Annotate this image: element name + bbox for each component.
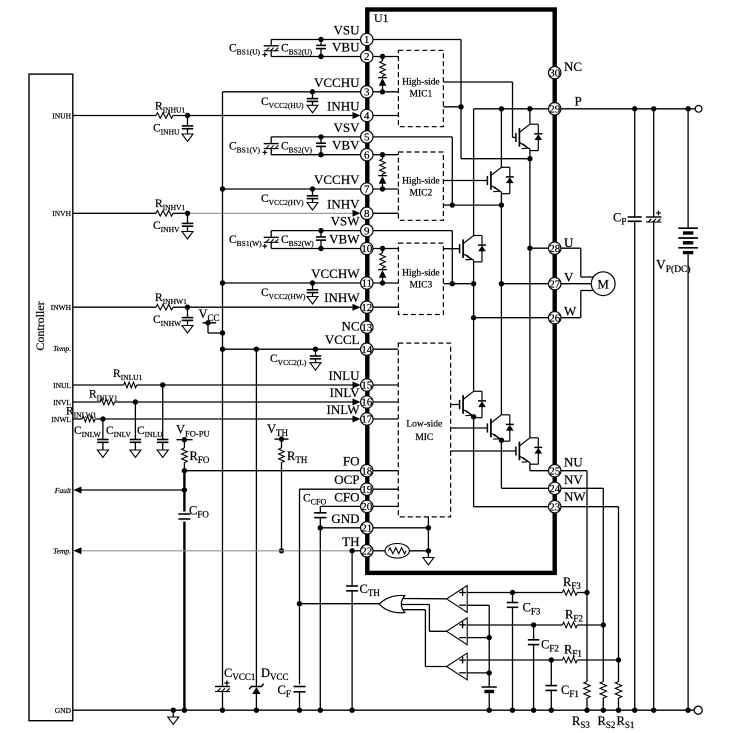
wire VCCHV right [373,188,398,190]
ground bus junction [510,708,515,713]
VCC supply terminal [203,322,217,324]
wire RF2 to NV [577,624,603,626]
svg-text:NC: NC [564,59,582,74]
wire VSU jog to U emitter [461,158,530,160]
node CBS2(V) top [318,134,323,139]
wire VBW left [271,248,360,250]
node NV-RF2 [601,622,606,627]
node U emitter [527,156,532,161]
capacitor CINHV [187,213,189,223]
ground bus junction [616,708,621,713]
node P-U collector [527,106,532,111]
wire VBU right [373,56,398,58]
node bootstrap U top [380,54,385,59]
capacitor CBS2(W) [320,231,322,237]
wire U emitter down [529,149,531,248]
pin 15 [361,379,373,391]
resistor RFO [183,440,185,448]
wire RINLW1 to pin 17 [95,418,354,420]
node bootstrap V bottom [380,186,385,191]
wire VCCHW line [223,282,361,284]
svg-text:INLU: INLU [328,368,360,383]
capacitor CF1 [546,685,558,687]
svg-text:INLW: INLW [327,402,361,417]
node CVCC2(HU) [310,89,315,94]
wire INWH from controller [73,306,156,308]
svg-text:11: 11 [362,278,373,290]
plus CBS1(U) [263,54,268,56]
node LS V emitter [499,438,504,443]
node RFO-FO [182,468,187,473]
node CF2 [531,622,536,627]
wire RINLV1 to pin 16 [115,401,354,403]
wire RF1 to NW [577,659,618,661]
svg-text:P: P [575,94,582,109]
wire VCCHW right [373,282,398,284]
svg-text:INUL: INUL [53,381,71,390]
wire pin 20 into low-side MIC [373,505,398,507]
wire thermistor to gnd node [409,550,428,552]
ground CINLU [157,450,168,458]
wire pin 15 into low-side MIC [373,384,398,386]
capacitor CVCC2(HU) [312,92,314,99]
resistor RF2 [562,622,577,628]
node NU-RF3 [584,590,589,595]
node W emitter [471,281,476,286]
ground bus junction [349,708,354,713]
node CBS2(W) top [318,228,323,233]
capacitor CBS1(U) electrolytic [264,45,279,47]
node V rail [499,281,504,286]
pin 19 [361,483,373,495]
node CTH on TH line [349,548,354,553]
node battery top [685,106,690,111]
capacitor CBS2(U) [320,40,322,46]
capacitor CBS1(V) electrolytic [264,143,279,145]
ground CVCC2(L) [310,363,321,371]
pin 24 [549,482,561,494]
wire MIC1 VS output [443,106,461,108]
pin 9 [361,224,373,236]
ground CVCC2(HU) [307,105,318,113]
svg-text:8: 8 [364,208,370,220]
svg-text:1: 1 [364,34,370,46]
svg-text:21: 21 [361,523,372,535]
wire MIC2 gate output [443,180,487,182]
resistor RINLV1 [100,399,114,405]
transistor low-side V IGBT [500,284,502,415]
resistor RINLW1 [82,416,95,422]
pin 20 [361,500,373,512]
wire CINLW [102,419,104,440]
wire U to motor [561,247,581,249]
arrow into pin 4 [353,112,361,119]
svg-text:VCCHW: VCCHW [311,266,360,281]
wire VBV left [271,154,360,156]
capacitor CINLU [157,439,169,441]
wire bootstrap left vertical [270,40,272,46]
svg-text:20: 20 [361,501,373,513]
wire CF1 [550,660,552,686]
pin 11 [361,277,373,289]
arrow into pin 17 [353,416,361,423]
wire Temp line gray [81,550,352,552]
svg-text:5: 5 [364,132,370,144]
arrow Temp into controller [73,547,81,554]
wire VCCL line [223,348,361,350]
svg-text:23: 23 [549,501,561,513]
wire LS gate V phase [451,427,488,429]
wire P rail external [561,108,695,110]
pin 3 [361,86,373,98]
wire CTH vertical [351,551,353,586]
diode bootstrap V [378,175,387,177]
svg-text:3: 3 [364,87,370,99]
pin 23 [549,501,561,513]
node NW-RF1 [616,657,621,662]
wire VCCHU line [223,91,361,93]
pin 13 [361,321,373,333]
pin 16 [361,396,373,408]
resistor RINHV1 [156,211,173,217]
arrow Fault into controller [73,487,81,494]
node CBS2(V) bottom [318,152,323,157]
svg-text:4: 4 [364,110,370,122]
svg-text:VBV: VBV [332,138,360,153]
wire LS gate W phase [451,404,460,406]
wire DVCC vertical [255,349,257,686]
svg-text:INWH: INWH [51,303,72,312]
wire OR input comp U [401,598,447,600]
battery VP(DC) [678,227,698,229]
svg-text:NV: NV [564,472,583,487]
pin 27 [549,278,561,290]
svg-text:High-side: High-side [402,269,439,279]
wire VSW right of pin 9 [373,230,452,232]
resistor RS3 [584,682,590,699]
transistor low-side U IGBT [529,248,531,437]
node CF3 [510,590,515,595]
wire RINHU1 to pin 4 [173,115,354,117]
wire INHV into MIC2 [373,212,398,214]
wire CINLV [134,402,136,440]
resistor RF3 [562,590,577,596]
wire OCP down to CF [299,604,301,685]
svg-text:MIC3: MIC3 [410,281,433,291]
node CBS2(U) top [318,37,323,42]
svg-text:25: 25 [549,465,561,477]
wire V rail to pin 27 [501,283,548,285]
svg-text:MIC: MIC [415,433,433,443]
pin 7 [361,183,373,195]
svg-text:OCP: OCP [334,472,359,487]
pin 26 [549,312,561,324]
wire Cel vertical [653,109,655,217]
node CBS2(W) bottom [318,246,323,251]
arrow into pin 8 [353,210,361,217]
wire comp W + input [467,659,562,661]
wire bootstrap left vertical [270,137,272,144]
wire RINLU1 to pin 15 [137,384,354,386]
wire VBU left [271,56,360,58]
node bootstrap V top [380,152,385,157]
capacitor CVCC2(HW) [312,283,314,290]
ground bus junction [297,708,302,713]
wire INUL from controller [73,384,124,386]
ground bus junction [171,708,176,713]
wire RINHV1 to pin 8 [173,212,188,214]
capacitor CCFO [314,512,326,514]
wire INUH from controller [73,115,156,117]
wire OR input comp W [401,609,425,611]
node Cel top [651,106,656,111]
capacitor CP [628,216,642,218]
plus CVCC1 [224,682,229,684]
wire battery bottom [687,254,689,710]
wire VSV jog to V emitter [452,204,501,206]
svg-text:GND: GND [331,511,359,526]
ground CINHW [182,326,193,334]
wire OR input comp V [401,604,429,606]
wire W emitter down [473,260,475,391]
svg-text:INUH: INUH [52,111,71,120]
capacitor CINLV [130,439,142,441]
node VSV-MIC2 [450,202,455,207]
wire NU external [561,470,587,472]
wire P rail inside [474,108,549,110]
svg-text:VCCL: VCCL [325,332,360,347]
dashed box MIC1 [398,50,443,126]
wire RF3 to NU [577,592,587,594]
svg-text:FO: FO [343,454,360,469]
wire MIC2 VS output [443,204,452,206]
svg-text:INLV: INLV [330,385,360,400]
svg-text:VBU: VBU [332,40,360,55]
wire pin 21 internal [373,527,428,529]
pin 10 [361,242,373,254]
wire VSW left [271,230,360,232]
svg-text:CFO: CFO [334,489,359,504]
node CINLV junction [133,399,138,404]
thermistor TH [385,544,409,559]
wire comp V + input [467,624,562,626]
wire pin 14 into low-side MIC [373,348,398,350]
wire VSU right of pin 1 [373,39,461,41]
svg-text:VCCHU: VCCHU [314,75,360,90]
node VCCHV on bus [220,186,225,191]
wire ref battery to gnd [488,693,490,710]
ground bus junction [182,708,187,713]
transistor high-side W IGBT [459,244,461,253]
resistor RF1 [562,657,577,663]
svg-text:INVH: INVH [52,209,71,218]
svg-text:27: 27 [549,278,561,290]
node VSU-MIC1 [458,104,463,109]
wire INVL from controller [73,401,101,403]
svg-text:Fault: Fault [54,486,72,495]
node CINHV junction [185,211,190,216]
wire pin 18 into low-side MIC [373,470,398,472]
svg-text:Controller: Controller [33,301,47,350]
IPM module U1 outline [367,10,554,573]
OR gate [379,595,404,612]
wire comp V - input [467,637,489,639]
node RTH on TH line [279,548,284,553]
capacitor CVCC2(L) [315,349,317,356]
transistor low-side W IGBT [459,400,461,409]
pin 4 [361,109,373,121]
node VSW-MIC3 [450,281,455,286]
svg-text:GND: GND [55,706,72,715]
reference battery [482,686,497,688]
ground internal [427,551,429,558]
node P-V collector [499,106,504,111]
Controller box [29,74,73,721]
node OCP-OR junction [297,601,302,606]
wire NV path [500,440,502,489]
wire VSV left [271,136,360,138]
wire CF2 [533,625,535,640]
wire NW path [473,416,475,507]
node VCC stub on bus [220,330,225,335]
svg-text:14: 14 [361,344,373,356]
node V emitter [499,202,504,207]
ground bus junction [318,708,323,713]
svg-text:U1: U1 [374,11,389,25]
svg-text:INHU: INHU [327,99,360,114]
wire bootstrap left vertical [270,231,272,238]
capacitor CBS2(V) [320,137,322,143]
svg-text:W: W [564,304,577,319]
wire INHW into MIC3 [373,306,398,308]
transistor high-side V IGBT [500,109,502,168]
node ref V [487,635,492,640]
capacitor CINHU [187,116,189,126]
node VCCL on bus [220,347,225,352]
ground CVCC2(HV) [307,203,318,211]
svg-text:NW: NW [564,489,586,504]
svg-text:28: 28 [549,243,561,255]
pin 18 [361,465,373,477]
capacitor CBS1(W) electrolytic [264,236,279,238]
plus CBS1(V) [263,151,268,153]
node bootstrap W bottom [380,280,385,285]
capacitor CTH [346,585,358,587]
comparator U [447,586,468,613]
ground CINLW [97,450,108,458]
dashed box MIC2 [398,152,443,220]
wire VSW jog to W emitter [452,283,473,285]
node CVCC2(HV) [310,186,315,191]
wire P feed to W collector [473,109,475,236]
ground CINLV [130,450,141,458]
ground CVCC2(HW) [307,297,318,305]
pin 8 [361,207,373,219]
wire pin 17 into low-side MIC [373,418,398,420]
node CINLW junction [100,416,105,421]
svg-text:26: 26 [549,312,561,324]
svg-text:INHV: INHV [327,196,360,211]
wire GND pin21 line [320,527,360,529]
wire VSV right of pin 5 [373,136,452,138]
pin 25 [549,465,561,477]
pin 2 [361,50,373,62]
wire INWL from controller [73,418,82,420]
plus Cel [656,212,661,214]
svg-text:VSV: VSV [333,120,360,135]
ground bus junction [632,708,637,713]
wire V to motor [561,283,591,285]
resistor bootstrap U [382,57,384,62]
transistor high-side U IGBT [529,109,531,124]
svg-text:22: 22 [361,546,372,558]
svg-text:6: 6 [364,149,370,161]
svg-text:30: 30 [549,67,561,79]
svg-text:16: 16 [361,397,373,409]
capacitor CF2 [528,639,540,641]
ground bus junction [651,708,656,713]
node ref W [487,670,492,675]
pin 22 [361,545,373,557]
wire fault vertical thick [183,471,185,512]
pin 21 [361,522,373,534]
svg-text:NU: NU [564,455,583,470]
capacitor electrolytic bus [646,216,662,218]
pin 30 [549,67,561,79]
node CINHU junction [185,113,190,118]
pin 14 [361,343,373,355]
wire internal gnd vertical [427,517,429,551]
pin 29 [549,103,561,115]
wire INVH from controller [73,212,156,214]
svg-text:2: 2 [364,51,370,63]
svg-text:INHW: INHW [324,290,360,305]
resistor bootstrap W [382,249,384,254]
VTH supply terminal [275,438,289,440]
node CINLU junction [160,382,165,387]
node W rail [471,315,476,320]
node CF1 [549,657,554,662]
comparator W [447,653,468,680]
wire FO line to pin 18 [184,470,360,472]
svg-text:13: 13 [361,322,373,334]
ground bus junction [487,708,492,713]
capacitor CF3 [507,602,519,604]
resistor bootstrap V [382,155,384,159]
wire VBV right [373,154,398,156]
wire VCCHU right [373,91,398,93]
ground CINHV [182,232,193,240]
wire CINLU [162,385,164,440]
wire CFO pin20 line [320,505,360,507]
node U rail [527,246,532,251]
capacitor CINHW [187,307,189,317]
diode bootstrap W [378,269,387,271]
wire CFO to ground bus thick [183,522,185,711]
wire W rail to pin 26 [474,317,549,319]
ground bus junction [584,708,589,713]
ground bus [73,709,694,711]
pin 5 [361,131,373,143]
node pin21 on CCFO line [318,525,323,530]
wire NV external [561,487,604,489]
capacitor CF [294,686,306,688]
resistor RINHU1 [156,113,173,119]
wire MIC1 gate output [443,81,512,83]
node VCCHW on bus [220,280,225,285]
svg-text:High-side: High-side [402,78,439,88]
ground bus junction [601,708,606,713]
